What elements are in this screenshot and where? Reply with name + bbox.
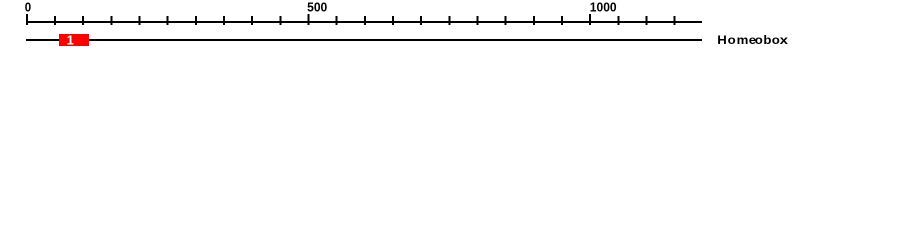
minor tick 1150 bbox=[674, 16, 676, 25]
minor tick 650 bbox=[392, 16, 394, 25]
major tick 500 bbox=[308, 14, 310, 25]
svg-text:x: x bbox=[780, 33, 789, 47]
minor tick 200 bbox=[139, 16, 141, 25]
svg-text:1000: 1000 bbox=[590, 0, 617, 15]
minor tick 150 bbox=[110, 16, 112, 25]
minor tick 100 bbox=[82, 16, 84, 25]
domain box (Homeobox, feature 1) bbox=[59, 34, 89, 46]
minor tick 850 bbox=[505, 16, 507, 25]
background bbox=[0, 0, 900, 58]
minor tick 750 bbox=[448, 16, 450, 25]
svg-text:0: 0 bbox=[25, 0, 31, 15]
ruler axis line bbox=[26, 21, 702, 23]
minor tick 600 bbox=[364, 16, 366, 25]
minor tick 350 bbox=[223, 16, 225, 25]
svg-text:Homeobo: Homeobo bbox=[717, 33, 780, 46]
minor tick 400 bbox=[251, 16, 253, 25]
sequence line bbox=[26, 39, 702, 41]
minor tick 450 bbox=[279, 16, 281, 25]
minor tick 1100 bbox=[646, 16, 648, 25]
minor tick 800 bbox=[477, 16, 479, 25]
minor tick 700 bbox=[420, 16, 422, 25]
minor tick 300 bbox=[195, 16, 197, 25]
minor tick 900 bbox=[533, 16, 535, 25]
svg-text:500: 500 bbox=[307, 0, 327, 15]
major tick 0 bbox=[26, 14, 28, 25]
minor tick 250 bbox=[167, 16, 169, 25]
minor tick 950 bbox=[561, 16, 563, 25]
minor tick 1050 bbox=[617, 16, 619, 25]
minor tick 550 bbox=[336, 16, 338, 25]
minor tick 50 bbox=[54, 16, 56, 25]
svg-text:1: 1 bbox=[67, 33, 74, 48]
major tick 1000 bbox=[589, 14, 591, 25]
